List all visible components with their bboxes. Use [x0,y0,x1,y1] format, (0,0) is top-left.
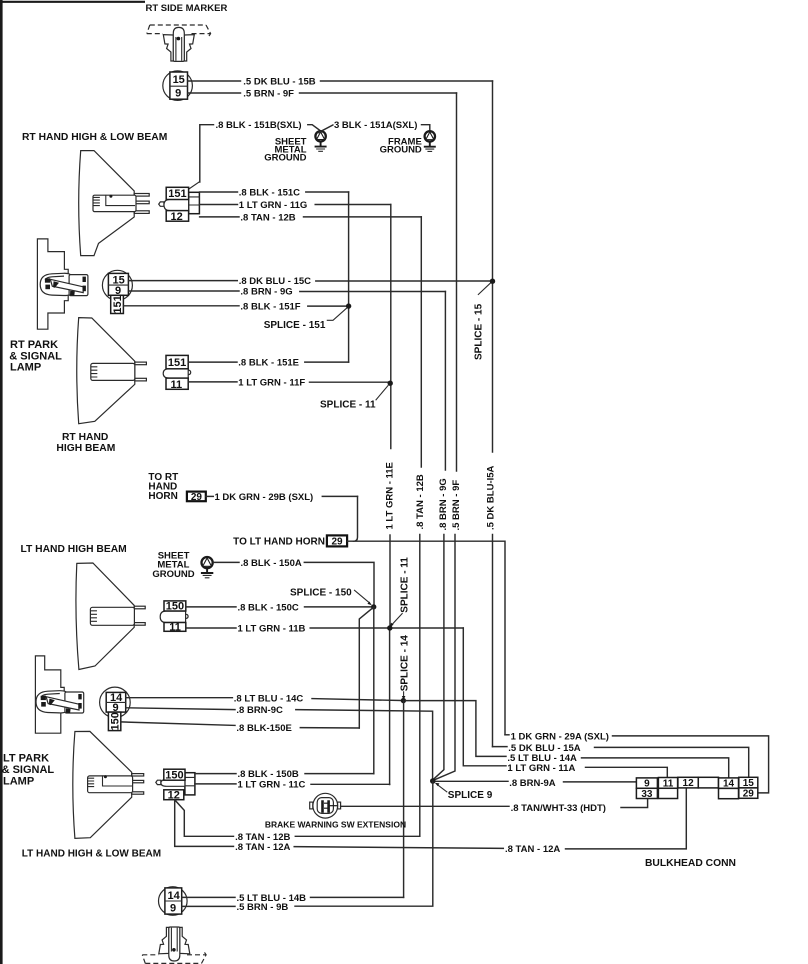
bulkhead connector [636,777,757,800]
wire .8 BLK - 150A [213,561,239,563]
frame ground G2 [424,131,436,151]
RT park & signal lamp bracket [37,239,68,329]
svg-text:150: 150 [165,770,183,782]
scan edge bar left [0,0,3,964]
svg-text:SPLICE - 15: SPLICE - 15 [473,303,484,360]
connector C103 (151/11) RT high beam [163,355,191,390]
svg-text:.8 BLK - 151F: .8 BLK - 151F [240,301,300,312]
scan edge line top [0,1,145,3]
svg-text:.8 BLK - 150C: .8 BLK - 150C [238,603,299,614]
svg-text:RT PARK: RT PARK [10,339,58,351]
svg-text:3 BLK - 151A(SXL): 3 BLK - 151A(SXL) [334,120,417,131]
terminal box 29 (LT horn) [327,535,347,546]
wire riser .8 BLK - 150 branches [373,607,375,774]
svg-text:1 LT GRN - 11E: 1 LT GRN - 11E [385,462,396,529]
svg-text:151: 151 [112,295,124,313]
wire vertical 1 LT GRN - 11E [390,205,392,449]
svg-text:.8 BRN - 9G: .8 BRN - 9G [240,287,292,298]
svg-text:.8 TAN - 12B: .8 TAN - 12B [415,474,426,529]
svg-text:SPLICE - 151: SPLICE - 151 [264,320,326,331]
svg-text:.8 BLK - 151E: .8 BLK - 151E [238,358,299,369]
splice dot SPLICE-151 [346,303,351,308]
svg-text:SPLICE - 11: SPLICE - 11 [320,400,376,411]
svg-text:12: 12 [168,789,180,801]
svg-text:& SIGNAL: & SIGNAL [9,350,62,362]
wire vertical .8 TAN - 12B [420,217,422,467]
RT park & signal bulb and socket [40,273,88,295]
svg-text:29: 29 [191,492,203,503]
svg-text:LT PARK: LT PARK [3,753,49,765]
wire .8 BLK - 151F [124,305,239,307]
svg-text:15: 15 [743,778,755,789]
svg-text:LAMP: LAMP [3,776,34,788]
wire .8 TAN/WHT-33 (HDT) [341,805,509,807]
svg-text:150: 150 [109,712,121,730]
connector C105 (14/9/150) LT park & signal [100,687,131,730]
svg-text:33: 33 [641,789,653,800]
svg-text:.8 TAN/WHT-33 (HDT): .8 TAN/WHT-33 (HDT) [511,803,606,814]
wire .8 BRN - 9C [126,708,235,710]
wire .5 DK BLU - 15A (bulkhead row) [493,746,508,748]
wire .5 BRN - 9B label [182,905,235,907]
svg-text:151: 151 [168,188,186,200]
svg-text:11: 11 [169,622,181,634]
svg-text:14: 14 [723,778,735,789]
wire .5 DK BLU - 15B [188,80,241,82]
svg-text:12: 12 [170,211,182,223]
svg-text:15: 15 [173,74,185,86]
connector C104 (150/11) LT high beam [160,600,188,633]
svg-text:.8 LT BLU - 14C: .8 LT BLU - 14C [234,693,304,704]
wire fork 12 pin [175,800,234,847]
svg-text:BULKHEAD CONN: BULKHEAD CONN [645,858,736,869]
svg-text:.8 TAN - 12A: .8 TAN - 12A [505,844,560,855]
wire 1 LT GRN - 11B [186,627,236,629]
wire .5 LT BLU - 14B [182,896,235,898]
wire .8 BLK-150E [121,722,235,726]
svg-text:& SIGNAL: & SIGNAL [2,764,55,776]
splice dot SPLICE-15 [490,279,495,284]
wire 1 DK GRN - 29B (SXL) [206,495,214,497]
wire 29 to bulkhead riser [347,541,505,735]
connector C107 (14/9) bottom side marker [159,887,188,916]
svg-text:.8 BLK - 151B(SXL): .8 BLK - 151B(SXL) [216,120,302,131]
svg-text:GROUND: GROUND [380,144,422,155]
wire vertical .5 BRN - 9F [456,93,458,471]
wire .8 TAN - 12B [200,216,239,218]
splice dot SPLICE-150 [371,604,376,609]
svg-text:SPLICE 9: SPLICE 9 [448,790,493,801]
svg-text:.8 DK BLU - 15C: .8 DK BLU - 15C [239,276,311,287]
sheet metal ground G1 [315,131,327,151]
svg-text:1 DK GRN - 29A (SXL): 1 DK GRN - 29A (SXL) [511,732,609,743]
svg-text:.5 DK BLU-I5A: .5 DK BLU-I5A [486,465,497,530]
splice dot SPLICE-11 (lower) [387,625,392,630]
terminal box 29 (RT horn) [187,492,206,502]
svg-text:14: 14 [167,890,180,902]
svg-text:.8 TAN - 12A: .8 TAN - 12A [235,842,290,853]
LT hand high & low beam headlamp [73,731,144,838]
svg-text:.8 BRN - 9G: .8 BRN - 9G [438,478,449,530]
svg-text:.5 BRN - 9B: .5 BRN - 9B [237,902,289,913]
LT side marker lamp M2 [142,927,206,963]
RT side marker lamp M1 [147,25,211,61]
wire vertical .8 BRN - 9G [444,292,446,471]
svg-text:.5 DK BLU - 15B: .5 DK BLU - 15B [243,76,315,87]
wire vertical .5 LT BLU - 14B riser [403,701,405,898]
wire 1 LT GRN - 11C [195,783,236,785]
svg-text:GROUND: GROUND [264,152,306,163]
connector C100 (15/9) to side marker [163,71,193,101]
svg-text:LT HAND HIGH & LOW BEAM: LT HAND HIGH & LOW BEAM [22,848,161,859]
wire .8 BLK - 151C [200,191,238,193]
svg-text:RT HAND HIGH & LOW BEAM: RT HAND HIGH & LOW BEAM [22,132,167,143]
wire 1 LT GRN - 11F [188,381,237,383]
svg-text:.8 TAN - 12B: .8 TAN - 12B [240,212,295,223]
svg-text:BRAKE WARNING SW EXTENSION: BRAKE WARNING SW EXTENSION [265,819,406,829]
svg-text:.5 BRN - 9F: .5 BRN - 9F [243,89,294,100]
svg-text:151: 151 [168,357,186,369]
svg-text:11: 11 [663,778,674,789]
svg-text:GROUND: GROUND [152,569,194,580]
wire .8 DK BLU - 15C [129,280,238,282]
connector C102 (15/9/151) RT park & signal [102,270,132,313]
connector C106 (150/12) LT high&low beam [156,769,195,801]
svg-text:9: 9 [170,902,176,914]
svg-text:.5 BRN - 9F: .5 BRN - 9F [451,480,462,531]
svg-text:.8 BLK - 150B: .8 BLK - 150B [238,769,299,780]
LT park & signal bulb and socket [36,691,84,713]
wire .5 BRN - 9B riser [295,781,433,906]
svg-text:.8 BLK-150E: .8 BLK-150E [236,723,291,734]
svg-text:RT HAND: RT HAND [62,432,108,443]
svg-text:12: 12 [683,778,695,789]
wire .8 BRN - 9G [129,290,239,292]
svg-text:TO LT HAND HORN: TO LT HAND HORN [233,536,325,547]
connector C101 (151/12) RT high&low beam [159,182,200,223]
wire 1 LT GRN - 11G [200,204,238,206]
splice dot SPLICE-14 [401,698,406,703]
svg-text:.8 BLK - 150A: .8 BLK - 150A [241,558,302,569]
wire .5 BRN - 9F (top) [188,92,241,94]
wire riser .5 LT BLU - 14A [406,701,506,757]
RT hand high beam headlamp [77,318,147,424]
wire 3 BLK - 151A(SXL) [318,125,333,133]
svg-text:SPLICE - 11: SPLICE - 11 [400,557,411,613]
wire .8 LT BLU - 14C [126,697,232,699]
wire .8 BLK - 151B(SXL) [200,125,214,182]
wire .8 BLK - 151E [188,361,237,363]
brake warning sw extension connector [310,793,341,818]
svg-text:29: 29 [743,789,755,800]
wire .8 BLK - 150C [186,606,236,608]
LT park & signal lamp bracket [35,656,64,733]
svg-text:150: 150 [166,600,184,612]
wire 1 DK GRN - 29A (SXL) [505,734,509,736]
svg-text:LAMP: LAMP [10,362,41,374]
splice dot SPLICE-11 (upper) [388,381,393,386]
svg-text:1 DK GRN - 29B (SXL): 1 DK GRN - 29B (SXL) [215,492,314,503]
wire riser 1 LT GRN - 11A [463,628,506,766]
svg-text:RT SIDE MARKER: RT SIDE MARKER [146,3,228,14]
RT hand high & low beam headlamp [79,151,150,256]
LT hand high beam headlamp [76,563,145,670]
svg-text:1 LT GRN - 11B: 1 LT GRN - 11B [238,624,306,635]
svg-text:1 LT GRN - 11C: 1 LT GRN - 11C [238,780,306,791]
wire .8 BLK - 150B [195,773,236,775]
svg-text:.8 BLK - 151C: .8 BLK - 151C [239,188,300,199]
svg-text:SPLICE - 150: SPLICE - 150 [290,588,352,599]
svg-text:1 LT GRN - 11F: 1 LT GRN - 11F [238,378,305,389]
svg-text:.8 BRN-9C: .8 BRN-9C [236,705,283,716]
svg-text:HORN: HORN [148,491,177,502]
svg-text:29: 29 [331,537,343,548]
svg-text:LT HAND HIGH BEAM: LT HAND HIGH BEAM [21,544,127,555]
svg-text:SPLICE - 14: SPLICE - 14 [400,635,411,692]
splice dot SPLICE 9 [430,778,436,784]
svg-text:9: 9 [175,88,181,100]
svg-text:1 LT GRN - 11A: 1 LT GRN - 11A [507,763,575,774]
svg-text:HIGH BEAM: HIGH BEAM [56,443,115,454]
wire vertical .5 DK BLU-15A [492,81,494,452]
svg-text:11: 11 [170,379,182,391]
wire .8 BRN-9A [436,780,509,782]
svg-text:.8 BRN-9A: .8 BRN-9A [509,778,556,789]
wire vertical 151C/151E [348,192,350,362]
svg-text:1 LT GRN - 11G: 1 LT GRN - 11G [239,200,307,211]
sheet metal ground G3 [201,557,213,578]
